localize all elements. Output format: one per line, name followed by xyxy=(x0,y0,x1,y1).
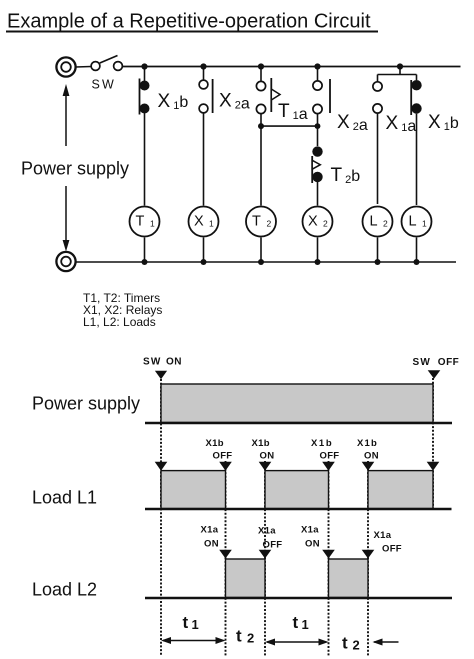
svg-text:X1a: X1a xyxy=(258,526,276,537)
waveform load L2 pulse2 xyxy=(329,559,369,598)
coil L1 xyxy=(402,207,432,263)
svg-text:1: 1 xyxy=(192,617,199,632)
svg-text:X1a: X1a xyxy=(374,530,392,541)
dashed line 4 xyxy=(328,461,330,656)
node rail X2 xyxy=(315,259,321,265)
svg-text:t: t xyxy=(183,613,189,632)
coil T2 xyxy=(246,207,276,263)
coil X2 xyxy=(303,207,333,263)
dashed line 1 xyxy=(160,379,162,656)
svg-text:Example of a Repetitive-operat: Example of a Repetitive-operation Circui… xyxy=(7,11,371,33)
svg-text:t: t xyxy=(342,634,348,653)
node branch3 top xyxy=(258,63,264,69)
svg-text:X1b: X1b xyxy=(206,438,224,449)
svg-text:T: T xyxy=(252,214,261,230)
svg-text:2: 2 xyxy=(323,219,328,229)
svg-text:1: 1 xyxy=(209,219,214,229)
marker L1 t0 xyxy=(155,462,168,471)
node rail L2 xyxy=(375,259,381,265)
svg-text:L1, L2: Loads: L1, L2: Loads xyxy=(83,315,156,329)
svg-text:OFF: OFF xyxy=(263,540,283,551)
marker L1 line5 xyxy=(362,462,375,471)
svg-text:ON: ON xyxy=(260,451,275,462)
node branch1 top xyxy=(141,63,147,69)
svg-text:SW: SW xyxy=(143,357,162,368)
dashed line 6 xyxy=(432,378,434,511)
svg-text:2: 2 xyxy=(353,638,360,653)
contact X1b branch6 xyxy=(411,80,421,205)
svg-text:X1a: X1a xyxy=(301,525,319,536)
svg-text:Load L2: Load L2 xyxy=(32,580,97,600)
wire cross connector xyxy=(261,125,318,127)
dashed line 2 xyxy=(225,461,227,656)
waveform load L1 pulse1 xyxy=(161,471,226,509)
marker SW ON xyxy=(155,371,167,379)
title xyxy=(6,11,378,33)
svg-text:Power supply: Power supply xyxy=(21,159,129,179)
svg-text:ON: ON xyxy=(305,539,320,550)
power supply arrow down xyxy=(63,186,70,252)
svg-text:SW: SW xyxy=(413,357,432,368)
node rail X1 xyxy=(201,259,207,265)
svg-text:Power supply: Power supply xyxy=(32,394,140,414)
legend xyxy=(83,291,162,329)
marker L2 line2 xyxy=(219,550,232,559)
svg-text:OFF: OFF xyxy=(320,451,340,462)
marker L2 line5 xyxy=(362,550,375,559)
svg-text:t: t xyxy=(236,627,242,646)
node rail T2 xyxy=(258,259,264,265)
dimension arrow t1 second xyxy=(265,639,329,646)
svg-text:SW: SW xyxy=(92,78,117,92)
marker L2 line4 xyxy=(322,550,335,559)
svg-text:L: L xyxy=(370,214,378,230)
wire branch5-6 tee xyxy=(378,67,417,83)
contact X2a branch2 xyxy=(199,67,213,206)
contact X2a branch4 xyxy=(313,67,330,147)
contact X1b branch1 xyxy=(140,67,150,206)
svg-text:X1b: X1b xyxy=(357,438,378,449)
coil T1 xyxy=(130,207,160,263)
power supply arrow up xyxy=(63,84,70,146)
dashed line 3 xyxy=(264,461,266,656)
svg-text:Load L1: Load L1 xyxy=(32,488,97,508)
switch SW xyxy=(76,56,123,92)
node branch2 top xyxy=(200,63,206,69)
node branch5-6 tap xyxy=(397,63,403,69)
coil L2 xyxy=(363,207,393,263)
marker L1 line4 xyxy=(322,462,335,471)
svg-text:2: 2 xyxy=(247,631,254,646)
node branch3 junction xyxy=(258,123,264,129)
power terminal top xyxy=(56,57,75,76)
baseline power supply xyxy=(145,422,452,424)
power terminal bottom xyxy=(56,252,75,271)
dimension arrow t1 first xyxy=(161,637,226,644)
marker L1 line3 xyxy=(259,462,272,471)
svg-text:ON: ON xyxy=(166,357,182,368)
contact T1a branch3 xyxy=(256,67,280,206)
node branch4 junction xyxy=(315,123,321,129)
dimension arrow left end xyxy=(373,639,399,646)
svg-text:2: 2 xyxy=(383,219,388,229)
waveform power supply xyxy=(161,384,433,423)
baseline load L1 xyxy=(145,508,452,510)
svg-text:X1a: X1a xyxy=(201,525,219,536)
svg-text:t: t xyxy=(293,613,299,632)
waveform load L1 pulse3 xyxy=(368,471,433,509)
baseline load L2 xyxy=(145,597,452,599)
node branch4 top xyxy=(314,63,320,69)
contact X1a branch5 xyxy=(373,82,382,204)
svg-text:T: T xyxy=(136,214,145,230)
svg-text:ON: ON xyxy=(364,451,379,462)
coil X1 xyxy=(189,207,219,263)
svg-text:ON: ON xyxy=(204,539,219,550)
waveform load L1 pulse2 xyxy=(265,471,329,509)
svg-text:X: X xyxy=(308,214,318,230)
node rail T1 xyxy=(142,259,148,265)
svg-text:X: X xyxy=(194,214,204,230)
svg-text:X1b: X1b xyxy=(311,438,333,449)
svg-text:L: L xyxy=(409,214,417,230)
svg-text:OFF: OFF xyxy=(382,544,402,555)
svg-text:2: 2 xyxy=(267,219,272,229)
svg-text:1: 1 xyxy=(150,219,155,229)
marker L1 line6 xyxy=(427,462,440,471)
waveform load L2 pulse1 xyxy=(226,559,266,598)
wire bottom rail xyxy=(76,261,457,263)
svg-text:OFF: OFF xyxy=(213,451,233,462)
marker L2 line3 xyxy=(259,550,272,559)
dashed line 5 xyxy=(367,461,369,656)
svg-text:X1b: X1b xyxy=(252,438,270,449)
svg-text:OFF: OFF xyxy=(438,357,460,368)
svg-text:1: 1 xyxy=(422,219,427,229)
marker SW OFF xyxy=(428,370,441,379)
contact T2b branch4 xyxy=(312,146,322,205)
svg-text:1: 1 xyxy=(302,617,309,632)
marker L1 line2 xyxy=(219,462,232,471)
node rail L1 xyxy=(414,259,420,265)
wire top rail xyxy=(122,66,460,68)
